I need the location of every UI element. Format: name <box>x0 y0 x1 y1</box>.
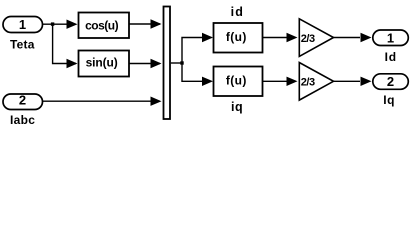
svg-text:Iabc: Iabc <box>10 113 35 127</box>
wire junction down to fiq <box>182 63 212 81</box>
wire gain2 to outport 2 <box>334 80 361 82</box>
svg-text:Iq: Iq <box>383 93 395 107</box>
wire mux output to junction <box>171 62 182 64</box>
wire Teta to cos <box>43 23 77 25</box>
block cos(u) <box>79 13 130 39</box>
svg-text:Teta: Teta <box>10 38 35 52</box>
svg-text:cos(u): cos(u) <box>85 18 119 32</box>
wire fiq to gain2 <box>263 80 287 82</box>
block fid f(u) <box>214 23 263 53</box>
svg-text:sin(u): sin(u) <box>86 56 118 70</box>
arrowhead into mux mid <box>151 59 162 68</box>
arrowhead into sin <box>67 59 78 68</box>
svg-text:f(u): f(u) <box>226 74 247 88</box>
arrowhead into outport 2 <box>361 77 372 86</box>
svg-text:1: 1 <box>387 30 394 45</box>
svg-text:2/3: 2/3 <box>301 77 315 89</box>
wire gain1 to outport 1 <box>334 37 361 39</box>
wire sin to mux <box>130 63 161 65</box>
svg-text:2/3: 2/3 <box>301 33 315 45</box>
arrowhead into cos <box>67 20 78 29</box>
wire fid to gain1 <box>263 37 287 39</box>
svg-text:2: 2 <box>387 74 394 89</box>
gain1 triangle <box>299 19 333 57</box>
mux bar <box>164 7 171 120</box>
wire junction up to fid <box>182 38 212 64</box>
outport 2 oval <box>373 74 409 90</box>
arrowhead into outport 1 <box>361 33 372 42</box>
svg-text:iq: iq <box>231 100 243 114</box>
svg-text:id: id <box>231 5 245 19</box>
junction dot B <box>180 61 183 64</box>
svg-text:f(u): f(u) <box>226 30 247 44</box>
junction dot A <box>51 22 54 25</box>
wire cos to mux <box>130 23 161 25</box>
block fiq f(u) <box>214 67 263 97</box>
arrowhead into gain2 <box>287 77 298 86</box>
svg-text:2: 2 <box>19 93 26 108</box>
outport 1 oval <box>373 30 409 46</box>
svg-text:1: 1 <box>19 17 26 32</box>
inport 2 (Iabc) oval <box>3 93 43 110</box>
wire branch down to sin <box>53 24 76 63</box>
arrowhead into fid <box>202 33 213 42</box>
arrowhead into fiq <box>202 77 213 86</box>
gain2 triangle <box>299 63 333 101</box>
svg-text:Id: Id <box>385 50 397 64</box>
arrowhead into gain1 <box>287 33 298 42</box>
arrowhead into mux bottom <box>151 97 162 106</box>
arrowhead into mux top <box>151 19 162 28</box>
wire Iabc to mux <box>43 100 161 102</box>
inport 1 (Teta) oval <box>3 17 43 33</box>
block sin(u) <box>79 51 130 77</box>
